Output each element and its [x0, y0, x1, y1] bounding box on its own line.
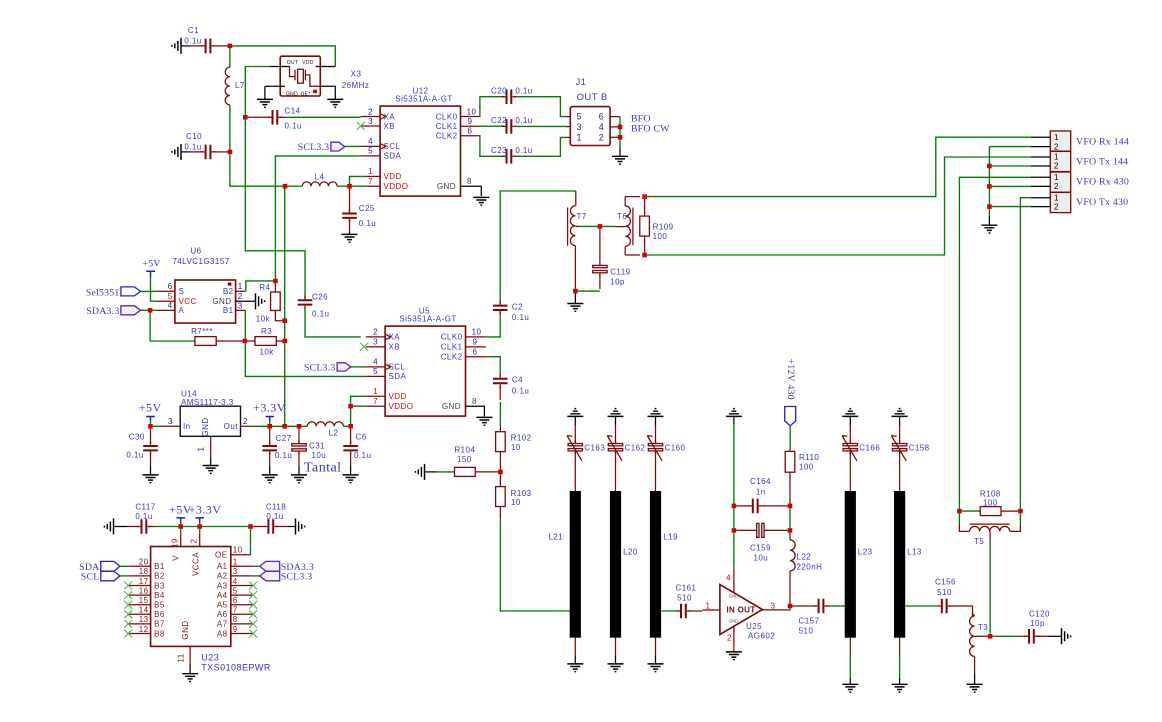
inductor L23 resonator bar	[845, 491, 856, 638]
svg-text:C120: C120	[1029, 610, 1050, 619]
svg-text:C10: C10	[186, 132, 202, 141]
svg-text:Si5351A-A-GT: Si5351A-A-GT	[399, 315, 456, 324]
variable capacitor C160	[655, 426, 657, 443]
svg-text:7: 7	[233, 606, 238, 615]
svg-text:SDA: SDA	[389, 372, 407, 381]
pin 4 of J1	[610, 126, 620, 128]
svg-text:R109: R109	[653, 223, 674, 232]
wire T6 top to R109	[625, 196, 640, 198]
pin 2 VCCA of U23	[199, 529, 201, 534]
svg-text:10: 10	[233, 546, 243, 555]
pin 2 of VFO Tx 144	[1031, 165, 1051, 167]
svg-text:3: 3	[577, 122, 582, 132]
pin 1 of VFO Tx 144	[1031, 156, 1051, 158]
pin 2 of VFO Rx 144	[1031, 146, 1051, 148]
svg-text:C166: C166	[859, 444, 880, 453]
pin 15 B5 of U23	[129, 604, 151, 606]
wire 3.3V rail	[272, 425, 307, 427]
svg-text:GND: GND	[286, 91, 298, 97]
svg-text:OE*: OE*	[300, 91, 310, 97]
svg-text:L4: L4	[315, 173, 325, 182]
svg-text:2: 2	[373, 328, 378, 337]
svg-text:C163: C163	[584, 444, 605, 453]
pin 2 Out of U14	[241, 425, 251, 427]
svg-text:C30: C30	[129, 433, 145, 442]
resistor R4	[274, 283, 276, 292]
wire J1 ground bus	[619, 117, 621, 148]
pin 5 SDA of U5	[366, 375, 385, 377]
variable capacitor C162	[615, 426, 617, 443]
svg-text:A4: A4	[217, 591, 228, 600]
svg-text:R4: R4	[259, 283, 270, 292]
svg-text:VCC: VCC	[179, 297, 197, 306]
svg-text:L23: L23	[858, 548, 873, 557]
ground T7/C119	[567, 304, 583, 312]
wire B1 to U5 SDA net	[244, 310, 246, 338]
ground C27	[262, 475, 278, 483]
svg-text:A7: A7	[217, 620, 228, 629]
svg-text:5: 5	[373, 367, 378, 376]
svg-text:R3: R3	[261, 327, 272, 336]
svg-text:A3: A3	[217, 581, 228, 590]
svg-text:150: 150	[457, 455, 472, 464]
wire U25 input ground net	[733, 424, 735, 504]
svg-text:L22: L22	[797, 553, 812, 562]
op-amp U25 AG602	[720, 585, 763, 635]
svg-text:B2: B2	[154, 572, 165, 581]
svg-text:0.1u: 0.1u	[126, 451, 143, 460]
svg-text:0.1u: 0.1u	[285, 122, 302, 131]
ground U6 pin2	[256, 293, 265, 309]
svg-text:4: 4	[168, 301, 173, 310]
svg-text:10p: 10p	[610, 278, 625, 287]
node OE riser junction	[248, 524, 253, 529]
node T5/R108 right junction	[1018, 509, 1023, 514]
ground U12 GND	[473, 197, 489, 205]
svg-text:C119: C119	[610, 268, 630, 277]
svg-text:R7***: R7***	[191, 327, 213, 336]
svg-text:SCL: SCL	[81, 572, 100, 583]
node +5V/C30/In junction	[148, 424, 153, 429]
svg-text:CLK0: CLK0	[441, 333, 463, 342]
svg-text:220nH: 220nH	[797, 563, 823, 572]
svg-text:510: 510	[937, 588, 952, 597]
svg-text:SCL3.3: SCL3.3	[281, 572, 313, 583]
pin 8 GND of U12	[461, 186, 482, 196]
pin 4 A of U6	[140, 309, 148, 311]
pin 7 VDDO of U5	[366, 405, 385, 407]
pin 18 B2 of U23	[129, 575, 151, 577]
svg-text:8: 8	[472, 397, 477, 406]
crystal module X3	[280, 56, 320, 96]
node R109 bottom junction	[642, 253, 647, 258]
capacitor C117	[104, 519, 113, 535]
pin 4 SCL of U12	[361, 145, 381, 147]
ground VFO bus	[981, 225, 997, 233]
capacitor C14	[248, 116, 271, 118]
wire pull-up riser to rail	[284, 343, 286, 424]
wire down to pin4	[733, 533, 735, 569]
node U5 VDD junction	[348, 404, 353, 409]
svg-text:1: 1	[197, 446, 206, 451]
node R4 bottom junction on VDD riser	[282, 318, 287, 323]
svg-text:A: A	[179, 306, 185, 315]
pin 16 B4 of U23	[129, 594, 151, 596]
capacitor C156	[942, 599, 947, 614]
svg-text:C26: C26	[312, 293, 328, 302]
capacitor C1	[172, 38, 181, 54]
svg-text:6: 6	[168, 282, 173, 291]
ground above C166	[842, 409, 858, 417]
pin 2 of J1	[610, 136, 620, 138]
svg-text:10: 10	[511, 498, 521, 507]
svg-text:A1: A1	[217, 562, 228, 571]
svg-text:1: 1	[238, 282, 243, 291]
pin 3 XB of U12 no-connect	[361, 125, 381, 127]
node T7 ground junction	[573, 289, 578, 294]
svg-text:10u: 10u	[753, 554, 768, 563]
svg-text:C14: C14	[285, 107, 301, 116]
svg-text:B4: B4	[154, 591, 165, 600]
pin 20 B1 of U23	[129, 565, 151, 567]
svg-text:B1: B1	[154, 562, 165, 571]
node +3.3V rail junction	[267, 424, 272, 429]
wire VDD riser from L4 junction	[284, 189, 286, 339]
svg-text:SCL3.3: SCL3.3	[304, 362, 336, 373]
svg-text:IN OUT: IN OUT	[727, 606, 756, 615]
ground above C160	[648, 409, 664, 417]
svg-text:C2: C2	[512, 303, 523, 312]
pin 3 A2 of U23	[231, 575, 253, 577]
svg-text:6: 6	[599, 112, 604, 122]
svg-text:2: 2	[1054, 142, 1059, 151]
pin 1 input of U25	[703, 609, 720, 611]
svg-text:OUT: OUT	[287, 60, 298, 66]
svg-text:10: 10	[467, 107, 477, 116]
wire L13 to C156	[905, 605, 937, 607]
node R109 top junction	[642, 194, 647, 199]
svg-text:Tantal: Tantal	[304, 460, 341, 475]
wire C1 junction to X3 VDD pin	[232, 46, 335, 67]
svg-text:VCCA: VCCA	[191, 552, 200, 576]
svg-text:510: 510	[799, 627, 814, 636]
ground U23	[182, 674, 198, 682]
svg-text:5: 5	[168, 292, 173, 301]
node R3/R4 rail junction	[282, 424, 287, 429]
svg-text:4: 4	[368, 137, 373, 146]
net label SDA at U23	[101, 561, 120, 571]
svg-text:14: 14	[139, 606, 149, 615]
svg-text:A8: A8	[217, 629, 228, 638]
ground below L19	[655, 638, 657, 656]
inductor L4	[302, 182, 337, 186]
svg-text:11: 11	[177, 653, 186, 662]
svg-text:C164: C164	[750, 477, 771, 486]
svg-text:L20: L20	[623, 548, 638, 557]
svg-text:X3: X3	[351, 70, 362, 79]
svg-text:R102: R102	[511, 433, 532, 442]
pin 1 A1 of U23	[231, 565, 253, 567]
svg-text:C156: C156	[935, 578, 956, 587]
svg-text:3: 3	[373, 338, 378, 347]
svg-text:3: 3	[368, 117, 373, 126]
pin 7 VDDO of U12	[366, 185, 381, 187]
ground U14	[203, 466, 219, 474]
svg-text:A5: A5	[217, 601, 228, 610]
svg-text:CLK2: CLK2	[441, 353, 463, 362]
capacitor C164	[736, 505, 750, 507]
svg-text:C160: C160	[665, 444, 686, 453]
svg-text:2: 2	[1054, 202, 1059, 211]
wire R109 bottom to VFO Tx 144	[647, 157, 1031, 255]
pin 2 of U25	[733, 626, 735, 652]
capacitor C26	[298, 300, 313, 304]
svg-text:VDDO: VDDO	[389, 402, 414, 411]
svg-text:TXS0108EPWR: TXS0108EPWR	[201, 663, 271, 673]
svg-text:0.1u: 0.1u	[184, 37, 201, 46]
svg-text:CLK1: CLK1	[441, 343, 463, 352]
svg-text:0.1u: 0.1u	[275, 451, 292, 460]
svg-text:1n: 1n	[756, 487, 766, 496]
pin 6 CLK2 of U5	[466, 356, 486, 358]
net label SDA3.3 at U6	[121, 306, 141, 315]
pin 9 CLK1 of U12	[461, 125, 480, 127]
svg-text:C22: C22	[491, 116, 507, 125]
svg-text:J1: J1	[576, 77, 586, 87]
svg-text:U6: U6	[190, 246, 201, 255]
svg-text:VFO Tx 144: VFO Tx 144	[1076, 156, 1128, 167]
pin 2 GND of U6	[236, 300, 255, 302]
transformer T5	[958, 513, 960, 524]
node C14 junction	[243, 115, 248, 120]
svg-text:13: 13	[139, 615, 149, 624]
ground below L20	[615, 638, 617, 656]
transformer T7	[575, 191, 577, 206]
svg-text:C157: C157	[799, 617, 820, 626]
svg-text:7: 7	[368, 177, 373, 186]
svg-text:A2: A2	[217, 572, 228, 581]
svg-text:In: In	[183, 422, 191, 431]
svg-text:V: V	[172, 555, 181, 561]
pin 3 B1 of U6	[236, 309, 246, 311]
svg-text:AMS1117-3.3: AMS1117-3.3	[181, 398, 234, 407]
node C6/VDDO rail junction	[348, 424, 353, 429]
svg-text:GND: GND	[442, 402, 461, 411]
wire T5 center tap down to T3 tap	[989, 531, 991, 540]
wire T7 tap to T6 tap	[575, 225, 581, 227]
svg-text:2: 2	[368, 107, 373, 116]
capacitor C120	[992, 635, 1022, 637]
node VDD/VDDO junction at U12	[347, 184, 352, 189]
svg-text:0.1u: 0.1u	[515, 116, 532, 125]
pin 1 of VFO Rx 430	[1031, 176, 1051, 178]
svg-text:74LVC1G3157: 74LVC1G3157	[172, 257, 229, 266]
svg-text:C27: C27	[276, 434, 292, 443]
connector J1 OUT B	[570, 107, 610, 146]
wire flag to R110	[789, 426, 791, 449]
svg-text:VDD: VDD	[389, 392, 407, 401]
node C164 right junction	[788, 504, 793, 509]
svg-text:GND: GND	[437, 182, 456, 191]
svg-text:VFO Rx 144: VFO Rx 144	[1076, 137, 1129, 148]
svg-text:U23: U23	[201, 652, 219, 662]
svg-text:0.1u: 0.1u	[266, 512, 283, 521]
transformer T3	[972, 613, 974, 616]
svg-text:VDD: VDD	[302, 60, 314, 66]
svg-text:0.1u: 0.1u	[312, 310, 329, 319]
variable capacitor C158	[899, 426, 901, 443]
resistor R3	[247, 340, 255, 342]
svg-text:1: 1	[577, 132, 582, 142]
wire L7 rail down to VDD rail corner	[230, 154, 283, 186]
capacitor C22	[480, 125, 505, 127]
node C10 junction on L7 rail	[228, 150, 233, 155]
svg-text:10: 10	[472, 328, 482, 337]
svg-text:U14: U14	[181, 389, 197, 398]
pin 6 CLK2 of U12	[461, 135, 480, 137]
node +3.3V junction	[197, 524, 202, 529]
resistor R102	[499, 402, 501, 424]
pin 6 A5 of U23	[231, 604, 253, 606]
node R4 top junction	[273, 279, 278, 284]
pin 11 GND of U23	[189, 646, 191, 664]
svg-text:7: 7	[373, 397, 378, 406]
ground below L13	[899, 638, 901, 657]
svg-text:+3.3V: +3.3V	[189, 503, 222, 517]
capacitor C118	[253, 526, 266, 528]
svg-text:0.1u: 0.1u	[512, 313, 529, 322]
svg-text:1: 1	[368, 167, 373, 176]
svg-text:AG602: AG602	[748, 632, 775, 641]
connector VFO Tx 430	[1050, 192, 1070, 212]
svg-text:2: 2	[238, 292, 243, 301]
svg-text:SDA: SDA	[384, 152, 402, 161]
svg-text:C159: C159	[750, 544, 771, 553]
svg-text:L13: L13	[907, 548, 922, 557]
svg-text:B2: B2	[223, 287, 234, 296]
svg-text:10p: 10p	[1030, 619, 1045, 628]
svg-text:100: 100	[799, 463, 814, 472]
wire VFO Rx 430 pin1 to T5 left	[959, 177, 1030, 509]
capacitor C30	[150, 429, 152, 445]
svg-text:510: 510	[677, 594, 692, 603]
svg-text:S: S	[179, 287, 185, 296]
svg-text:20: 20	[139, 558, 149, 567]
pin 1 B2 of U6	[236, 290, 246, 292]
node R7/R3 junction	[243, 339, 248, 344]
svg-text:GND: GND	[729, 618, 738, 623]
svg-text:9: 9	[233, 625, 238, 634]
wire L19 to C161	[661, 610, 679, 612]
ground T3	[967, 684, 983, 692]
svg-text:U25: U25	[746, 622, 762, 631]
resistor R108	[962, 510, 978, 512]
connector VFO Tx 144	[1050, 151, 1070, 171]
wire U5 VDD down to 3.3V rail	[350, 409, 352, 425]
node T5/R108 left junction	[957, 509, 962, 514]
wire C119 to T7 ground	[578, 290, 600, 292]
pin 7 A6 of U23	[231, 613, 253, 615]
ground X3 OE pin	[334, 91, 336, 99]
svg-text:B6: B6	[154, 610, 165, 619]
wire OE riser	[250, 529, 252, 555]
capacitor C161	[681, 604, 686, 619]
capacitor C23	[480, 136, 505, 157]
ground J1	[612, 156, 628, 164]
svg-text:R108: R108	[980, 490, 1001, 499]
svg-text:GND: GND	[212, 297, 231, 306]
svg-text:10: 10	[511, 443, 521, 452]
inductor L21 resonator bar	[570, 491, 581, 638]
variable capacitor C163	[574, 426, 576, 443]
svg-text:2: 2	[727, 633, 732, 642]
svg-text:SCL3.3: SCL3.3	[298, 142, 330, 153]
svg-text:8: 8	[233, 615, 238, 624]
wire VDD rail junction to L4	[283, 184, 288, 189]
svg-text:T3: T3	[978, 623, 988, 632]
pin 2 XA of U5	[366, 336, 385, 338]
svg-text:10k: 10k	[256, 314, 271, 323]
node U25 output junction	[788, 604, 793, 609]
svg-text:VFO Tx 430: VFO Tx 430	[1076, 197, 1128, 208]
ground C6	[343, 475, 359, 483]
svg-text:SDA3.3: SDA3.3	[86, 306, 119, 317]
wire R103 to filter rail	[500, 519, 570, 611]
capacitor C2	[486, 312, 500, 337]
ground above C158	[892, 409, 908, 417]
inductor L13 resonator bar	[894, 491, 905, 638]
node T7/C119 tap junction	[598, 224, 603, 229]
wire X3 OUT to C14/C26 vertical	[245, 67, 270, 116]
svg-text:B3: B3	[154, 581, 165, 590]
pin 10 CLK0 of U5	[466, 336, 486, 338]
inductor L22	[789, 533, 791, 540]
svg-text:4: 4	[599, 122, 604, 132]
pin 6 of J1	[610, 116, 620, 118]
svg-text:T6: T6	[617, 212, 627, 221]
pin 3 XB of U5 no-connect	[366, 346, 385, 348]
ground below L23	[849, 638, 851, 657]
pin 1 GND of U14	[210, 436, 212, 457]
pin 1 of VFO Tx 430	[1031, 197, 1051, 199]
svg-text:+12V 430: +12V 430	[785, 359, 796, 400]
variable capacitor C166	[849, 426, 851, 443]
node R3 right junction	[282, 339, 287, 344]
svg-text:4: 4	[233, 577, 238, 586]
wire crystal net down to C26	[245, 120, 305, 299]
pin 3 output of U25	[763, 609, 786, 611]
svg-text:CLK1: CLK1	[436, 122, 458, 131]
svg-text:VDD: VDD	[384, 172, 402, 181]
svg-text:T7: T7	[577, 212, 587, 221]
net label SCL3.3 at U5	[337, 363, 351, 371]
svg-text:+3.3V: +3.3V	[253, 401, 286, 415]
capacitor C4	[486, 357, 500, 377]
capacitor C20	[480, 97, 505, 117]
pin 8 GND of U5	[466, 406, 485, 416]
svg-text:6: 6	[233, 596, 238, 605]
svg-text:L2: L2	[329, 428, 339, 437]
ground C30	[143, 475, 159, 483]
svg-text:C23: C23	[491, 146, 507, 155]
svg-text:10u: 10u	[312, 451, 327, 460]
wire R110 to C164/C159 junctions	[789, 508, 791, 528]
wire VFO pin2 ground bus	[989, 147, 1030, 216]
wire T6 bottom to R109	[625, 254, 640, 256]
svg-text:0.1u: 0.1u	[512, 387, 529, 396]
svg-text:3: 3	[168, 417, 173, 426]
svg-text:2: 2	[243, 417, 248, 426]
